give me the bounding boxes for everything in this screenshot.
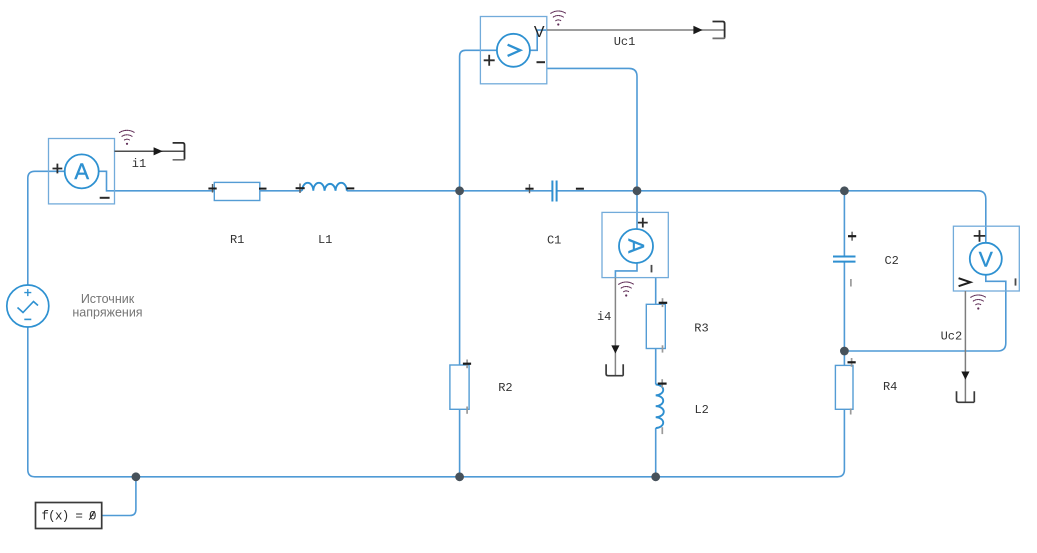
signal wire i1 with arrow [115, 147, 185, 155]
node G junction dot bottom L2 [651, 472, 660, 481]
wifi icon Uc2 [971, 295, 986, 310]
wire: ammeter A1 output to main line through R1 L1 to C1 [99, 171, 552, 191]
resistor R4 [835, 358, 855, 415]
node D junction dot C2/R4 [840, 347, 849, 356]
voltmeter U2 block Uc1 [480, 17, 546, 84]
svg-text:напряжения: напряжения [72, 306, 142, 320]
svg-text:V: V [534, 24, 545, 41]
svg-text:i1: i1 [132, 157, 146, 171]
wire: source down, bottom rail, up to R4 [28, 327, 845, 477]
svg-text:L2: L2 [694, 403, 708, 417]
svg-text:R3: R3 [694, 321, 708, 335]
wire: vertical through voltmeter V1 plus, node, R2 to bottom rail [460, 50, 497, 477]
goto tag Uc2 [957, 391, 975, 402]
node F junction dot bottom R2 [455, 472, 464, 481]
svg-text:f(x) = 0: f(x) = 0 [41, 510, 96, 524]
capacitor C1 [525, 181, 584, 202]
wire: source up to ammeter A1 [28, 171, 65, 285]
voltmeter U4 block Uc2 [953, 226, 1019, 291]
goto tag i1 [173, 143, 185, 159]
wifi icon i1 [119, 130, 134, 145]
svg-text:A: A [74, 159, 89, 184]
resistor R3 [646, 298, 667, 352]
svg-text:Uc1: Uc1 [614, 35, 636, 49]
wire: ammeter A2 I output through R3 to L2 to bottom rail [655, 278, 657, 477]
ammeter U1 block i1 [49, 139, 115, 204]
svg-text:R1: R1 [230, 233, 244, 247]
svg-text:R4: R4 [883, 380, 897, 394]
wifi icon i4 [619, 282, 634, 297]
node C junction dot [840, 186, 849, 195]
inductor L2 [656, 379, 667, 434]
wire: C1 right to top-right corner down to voltmeter V2 [557, 191, 985, 243]
wire: ammeter A2 inner bottom out [615, 263, 637, 278]
svg-text:C2: C2 [884, 254, 898, 268]
svg-text:Источник: Источник [81, 292, 135, 306]
signal wire i4 with arrow [611, 278, 619, 376]
svg-text:i4: i4 [597, 310, 611, 324]
capacitor C2 [833, 232, 856, 287]
goto tag Uc1 [713, 22, 725, 38]
wire: voltmeter V1 minus down to node and ammeter A2 [547, 68, 637, 229]
wire: voltmeter V2 minus loop back to C2/R4 node [844, 275, 1005, 351]
wire: f(x) solver to bottom rail [102, 477, 136, 516]
wire: voltmeter V1 inner right up [530, 30, 547, 50]
node B junction dot [633, 186, 642, 195]
svg-text:V: V [979, 248, 993, 271]
node E junction dot bottom f(x) [132, 472, 141, 481]
inductor L1 [296, 183, 355, 193]
signal wire Uc2 with arrow [961, 291, 969, 402]
svg-text:A: A [623, 239, 648, 254]
resistor R1 [208, 182, 266, 200]
wifi icon Uc1 [551, 11, 566, 26]
svg-text:C1: C1 [547, 234, 561, 248]
solver block f(x)=0 [36, 503, 102, 529]
signal wire Uc1 with arrow [547, 26, 725, 34]
svg-text:R2: R2 [498, 381, 512, 395]
svg-text:Uc2: Uc2 [941, 330, 963, 344]
goto tag i4 [606, 364, 623, 375]
ammeter U3 block i4 [602, 212, 668, 277]
svg-text:L1: L1 [318, 233, 332, 247]
voltage source V1 [7, 285, 49, 327]
resistor R2 [450, 360, 471, 414]
wire: C2 branch vertical [843, 191, 845, 366]
node A junction dot [455, 186, 464, 195]
